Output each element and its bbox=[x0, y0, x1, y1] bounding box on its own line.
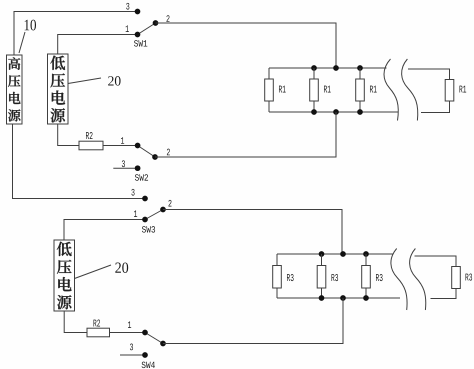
value label R3 bbox=[331, 274, 338, 281]
resistor body bbox=[317, 266, 326, 289]
SW2 pin number 2 bbox=[167, 149, 170, 156]
leader line for label 20 (top) bbox=[68, 78, 101, 84]
SW2 pin 2 node dot bbox=[152, 154, 158, 160]
junction nodes on R1 top bus bbox=[311, 65, 363, 71]
SW2 pin number 1 bbox=[121, 137, 124, 144]
switch SW2 bbox=[113, 137, 170, 180]
lead wire (bottom) bbox=[268, 101, 270, 112]
value label R2 bbox=[86, 132, 93, 139]
junction nodes on R3 top bus bbox=[319, 251, 369, 257]
wire: 低压电源(top) to SW1 pin 1 bbox=[58, 35, 138, 55]
lead wire (bottom) bbox=[359, 101, 361, 112]
box text 低压电源 bbox=[57, 242, 72, 256]
value label R3 bbox=[287, 274, 294, 281]
wire: R2 to SW4 pin 1 bbox=[110, 332, 146, 334]
wire: far R3 bottom return bbox=[431, 289, 457, 299]
lead wire (top) bbox=[321, 254, 323, 266]
node: R1#3 top junction bbox=[357, 65, 363, 71]
wire: R2 to SW2 pin 1 bbox=[103, 145, 138, 147]
resistor body bbox=[87, 328, 110, 337]
SW3 pin 2 node dot bbox=[160, 207, 166, 213]
resistor body bbox=[265, 79, 274, 101]
switch SW1 bbox=[126, 3, 170, 47]
wire: R1 bank top bus bbox=[269, 67, 387, 69]
lead wire (bottom) bbox=[313, 101, 315, 112]
resistor R1 (bank #3) bbox=[356, 68, 377, 112]
SW3 pin number 2 bbox=[168, 200, 171, 207]
lead wire (top) bbox=[276, 254, 278, 266]
break symbol (bottom bank) bbox=[390, 249, 426, 311]
SW2 switch arm bbox=[138, 146, 155, 158]
resistor body bbox=[452, 267, 461, 289]
box text 低压电源 bbox=[50, 56, 65, 70]
wire: SW2 pin 2 to R1 bank bottom bus bbox=[155, 112, 336, 157]
resistor R3 (bank #3) bbox=[362, 254, 383, 298]
node: R3#3 top junction bbox=[363, 251, 369, 257]
reference label 10 bbox=[19, 20, 36, 53]
SW2 pin 1 dot bbox=[135, 143, 141, 149]
node: R3#2 top junction bbox=[319, 251, 325, 257]
box outline bbox=[54, 240, 75, 311]
node: R1#2 top junction bbox=[311, 65, 317, 71]
SW2 designator label bbox=[135, 174, 148, 180]
SW2 pin number 3 bbox=[122, 160, 125, 167]
power supply 20 低压电源 (low-voltage supply, bottom) bbox=[54, 240, 75, 311]
SW1 pin 1 dot bbox=[135, 32, 141, 38]
SW1 pin number 3 bbox=[126, 3, 129, 10]
resistor R3 (bank #1) bbox=[273, 254, 294, 298]
wire: 高压电源 top to SW1 pin 3 bbox=[14, 12, 138, 56]
SW4 pin 3 stub wire bbox=[120, 354, 145, 356]
node: SW3 feed top junction bbox=[340, 251, 346, 257]
value label R1 bbox=[279, 86, 286, 93]
resistor body bbox=[362, 266, 371, 289]
SW4 pin 2 node dot bbox=[160, 341, 166, 347]
switch SW3 bbox=[131, 189, 171, 233]
lead wire (bottom) bbox=[321, 288, 323, 298]
resistor R1 (far right) bbox=[445, 80, 466, 102]
node: R3#2 bottom junction bbox=[319, 295, 325, 301]
box text 高压电源 bbox=[8, 57, 20, 69]
leader line for label 20 (bottom) bbox=[75, 265, 112, 279]
break squiggle right bbox=[401, 59, 418, 121]
node: R1#3 bottom junction bbox=[357, 109, 363, 115]
break squiggle left bbox=[384, 59, 398, 121]
wire: 低压电源(bottom) top to SW3 pin 1 bbox=[64, 220, 145, 241]
lead wire (top) bbox=[313, 68, 315, 79]
wire: 高压电源 bottom to SW3 pin 3 bbox=[13, 124, 146, 199]
reference label 20 (bottom) bbox=[75, 262, 129, 278]
wire: R3 bank top bus bbox=[277, 253, 394, 255]
SW1 switch arm bbox=[138, 23, 156, 35]
wire: SW4 pin 2 to R3 bank bottom bus bbox=[163, 298, 343, 344]
resistor R3 (bank #2) bbox=[317, 254, 338, 298]
break squiggle right bbox=[409, 249, 426, 311]
SW4 designator label bbox=[142, 362, 155, 368]
value label R1 bbox=[370, 86, 377, 93]
SW4 pin number 3 bbox=[130, 344, 133, 351]
power supply 20 低压电源 (low-voltage supply, top) bbox=[48, 54, 69, 124]
SW4 pin number 1 bbox=[128, 321, 131, 328]
value label R2 bbox=[93, 319, 100, 326]
wire: top-right segment to far R1 bbox=[408, 69, 450, 80]
SW2 pin 3 stub wire bbox=[113, 167, 137, 169]
resistor R1 (bank #1) bbox=[265, 68, 286, 112]
value label R3 bbox=[465, 273, 472, 280]
box outline bbox=[48, 54, 69, 124]
SW1 pin 3 dot bbox=[135, 9, 141, 15]
box outline bbox=[7, 55, 23, 124]
wire: SW1 pin 2 to R1 bank top bus bbox=[156, 23, 337, 68]
resistor R2 (top) bbox=[79, 132, 103, 150]
resistor R3 (far right) bbox=[452, 267, 472, 289]
SW4 switch arm bbox=[145, 333, 163, 344]
node: SW1 feed top junction bbox=[333, 65, 339, 71]
resistor R2 (bottom) bbox=[87, 319, 110, 336]
SW4 pin 3 dot bbox=[142, 352, 148, 358]
lead wire (top) bbox=[365, 254, 367, 266]
wire: 低压电源(bottom) to R2 (bottom) bbox=[64, 311, 87, 333]
value label R1 bbox=[459, 86, 466, 93]
SW1 pin number 1 bbox=[126, 25, 129, 32]
SW1 designator label bbox=[134, 40, 147, 46]
resistor body bbox=[310, 79, 319, 101]
power supply 10 高压电源 (high-voltage supply) bbox=[7, 55, 23, 124]
SW2 pin 3 dot bbox=[135, 165, 141, 171]
SW3 designator label bbox=[142, 226, 155, 232]
node: SW4 feed bottom junction bbox=[340, 295, 346, 301]
SW3 pin number 3 bbox=[131, 189, 134, 196]
SW3 pin 3 dot bbox=[142, 196, 148, 202]
break squiggle left bbox=[390, 249, 407, 311]
SW3 switch arm bbox=[145, 210, 163, 220]
junction nodes on R1 bottom bus bbox=[311, 109, 363, 115]
lead wire (top) bbox=[268, 68, 270, 79]
resistor body bbox=[79, 141, 103, 150]
wire: R1 bank bottom bus bbox=[269, 111, 399, 113]
wire: SW3 pin 2 to R3 bank top bus bbox=[163, 210, 342, 255]
wire: far R1 bottom return bbox=[421, 101, 450, 113]
lead wire (bottom) bbox=[276, 288, 278, 298]
reference label 20 (top) bbox=[68, 76, 121, 85]
node: R3#3 bottom junction bbox=[363, 295, 369, 301]
node: R1#2 bottom junction bbox=[311, 109, 317, 115]
wire: bottom-right segment to far R3 bbox=[415, 256, 457, 267]
break symbol (top bank) bbox=[384, 59, 418, 121]
lead wire (bottom) bbox=[365, 288, 367, 298]
switch SW4 bbox=[120, 321, 166, 368]
SW3 pin number 1 bbox=[134, 210, 137, 217]
SW1 pin number 2 bbox=[166, 15, 169, 22]
resistor body bbox=[273, 266, 282, 289]
SW3 pin 1 dot bbox=[142, 217, 148, 223]
value label R1 bbox=[324, 86, 331, 93]
resistor body bbox=[445, 80, 454, 102]
value label R3 bbox=[376, 274, 383, 281]
junction nodes on R3 bottom bus bbox=[319, 295, 369, 301]
leader line for label 10 bbox=[19, 32, 25, 53]
wire: 低压电源(top) bottom to R2 bbox=[58, 124, 79, 146]
SW4 pin 1 dot bbox=[142, 330, 148, 336]
wire: R3 bank bottom bus bbox=[277, 297, 400, 299]
resistor body bbox=[356, 79, 365, 101]
resistor R1 (bank #2) bbox=[310, 68, 331, 112]
node: SW2 feed bottom junction bbox=[333, 109, 339, 115]
lead wire (top) bbox=[359, 68, 361, 79]
SW1 pin 2 node dot bbox=[153, 20, 159, 26]
